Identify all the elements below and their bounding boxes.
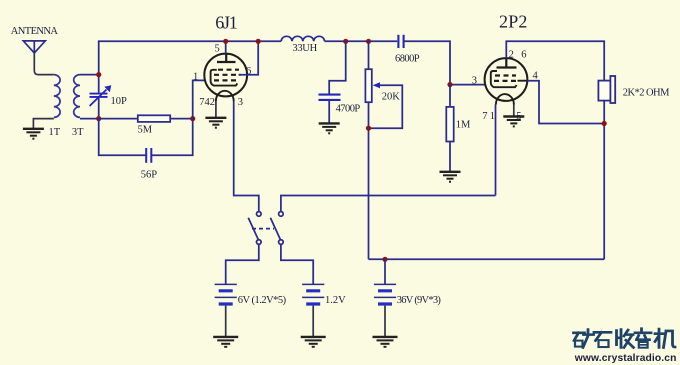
svg-text:1T: 1T: [49, 127, 61, 138]
svg-text:7: 7: [482, 111, 487, 122]
svg-text:3: 3: [472, 76, 477, 87]
ground (battery 6V): [213, 337, 238, 347]
wire 6800P to 2P2 grid: [404, 41, 485, 84]
junction 1M node: [447, 82, 452, 87]
svg-text:4: 4: [533, 70, 539, 81]
wire riser node A to top rail: [99, 41, 282, 74]
transformer secondary winding 3T: [74, 75, 80, 118]
svg-text:1M: 1M: [456, 119, 471, 130]
inductor 33UH: [281, 36, 324, 41]
junction node B: [96, 116, 101, 121]
battery 36V plates: [374, 284, 396, 304]
tube 6J1 heater: [216, 91, 234, 101]
capacitor 6800P plates: [398, 35, 403, 48]
wire 2P2 pin 7 1 down: [495, 105, 497, 196]
svg-text:1: 1: [490, 111, 495, 122]
wire 6J1 pin 6 to top rail: [239, 41, 259, 75]
svg-text:2P2: 2P2: [499, 12, 528, 32]
svg-text:5: 5: [215, 44, 220, 55]
antenna symbol: [23, 41, 45, 53]
svg-text:2: 2: [509, 50, 514, 61]
variable capacitor 10P arrow: [90, 85, 112, 106]
svg-text:5M: 5M: [138, 125, 153, 136]
tube 2P2 grids (dashed): [494, 76, 516, 81]
tube 6J1 grids (dashed): [214, 70, 241, 81]
svg-text:1: 1: [193, 71, 198, 82]
wire switch right to 2P2 pin 7: [281, 196, 496, 212]
tube 2P2 cathode: [491, 71, 517, 87]
svg-text:10P: 10P: [111, 96, 128, 107]
svg-text:4700P: 4700P: [336, 104, 361, 115]
variable capacitor 10P plates: [90, 94, 108, 97]
junction 6J1 pin 6 on rail: [256, 39, 261, 44]
wire 6J1 pin 5 to top rail: [225, 41, 227, 53]
battery 6V plates: [215, 284, 237, 304]
watermark logo (stylized CJK strokes): [574, 329, 676, 348]
capacitor 56P plates: [146, 148, 151, 163]
wire secondary top to node A: [80, 74, 99, 76]
ground (1M): [440, 172, 461, 182]
svg-text:ANTENNA: ANTENNA: [11, 26, 59, 37]
variable capacitor 10P leads: [98, 75, 100, 119]
ground (6J1 cathode): [205, 118, 226, 128]
wire 5M to grid node: [170, 118, 193, 120]
capacitor 56P leads: [99, 119, 193, 156]
svg-text:742: 742: [199, 97, 215, 108]
capacitor 4700P plates: [319, 95, 341, 100]
wire battery 1.2V to ground: [312, 306, 314, 337]
svg-text:20K: 20K: [382, 92, 401, 103]
battery 1.2V plates: [302, 284, 324, 304]
resistor 1M body: [446, 107, 453, 142]
potentiometer 20K wiper arrow: [369, 82, 403, 128]
svg-text:3: 3: [238, 97, 243, 108]
junction 20K tap: [366, 39, 371, 44]
tube 2P2 heater: [496, 94, 514, 104]
wire 2P2 plate to speaker top: [506, 41, 604, 80]
svg-text:6V (1.2V*5): 6V (1.2V*5): [238, 295, 287, 306]
ground (antenna coil): [23, 129, 44, 139]
wire speaker bottom to junction: [603, 101, 605, 260]
potentiometer 20K leads: [368, 41, 370, 259]
svg-text:6J1: 6J1: [215, 13, 237, 33]
svg-text:6800P: 6800P: [395, 54, 420, 65]
junction 6J1 pin 5 on rail: [223, 39, 228, 44]
wire battery 6V to ground: [225, 306, 227, 337]
speaker magnet bar: [610, 76, 615, 103]
svg-text:56P: 56P: [141, 170, 158, 181]
tube 6J1 plate: [217, 54, 236, 62]
speaker body: [598, 81, 610, 101]
transformer primary winding 1T: [54, 75, 60, 118]
svg-text:36V (9V*3): 36V (9V*3): [397, 295, 442, 306]
wire grid node to 6J1 pin 1: [193, 80, 205, 118]
capacitor 4700P leads: [329, 41, 346, 123]
switch S1 blades: [248, 218, 280, 240]
svg-text:www.crystalradio.cn: www.crystalradio.cn: [574, 353, 677, 364]
wire switch left bottom to battery 6V: [226, 244, 259, 284]
resistor 5M body: [138, 115, 170, 122]
wire 36V tap to battery 36V: [384, 259, 386, 284]
wire secondary bottom to node B: [80, 118, 99, 120]
wire 2P2 pin 4 to speaker bottom: [518, 80, 528, 82]
junction 20K bottom: [366, 126, 371, 131]
wire 2P2 pin 5 to ground: [513, 105, 515, 116]
svg-text:6: 6: [521, 50, 526, 61]
ground (2P2 pin 5): [503, 117, 524, 127]
svg-text:2K*2 OHM: 2K*2 OHM: [623, 88, 670, 99]
potentiometer 20K body: [365, 69, 371, 102]
wire 6J1 pin 3 to switch: [234, 101, 259, 212]
wire battery 36V to ground: [384, 306, 386, 337]
junction 36V tap: [382, 257, 387, 262]
junction node A: [96, 72, 101, 77]
tube 6J1 envelope: [204, 54, 247, 97]
ground (4700P): [319, 123, 340, 133]
svg-text:5: 5: [516, 111, 521, 122]
svg-text:1.2V: 1.2V: [325, 295, 346, 306]
wire node B to 5M: [99, 118, 138, 120]
wire antenna to transformer primary: [34, 53, 54, 75]
ground (battery 1.2V): [301, 337, 326, 347]
wire switch right bottom to battery 1.2V: [281, 244, 313, 284]
junction grid node: [190, 116, 195, 121]
tube 6J1 cathode: [211, 70, 238, 86]
wire inductor to 6800P: [325, 40, 398, 42]
wire 6J1 heater pin 742 to ground: [215, 101, 217, 117]
junction speaker bottom: [602, 121, 607, 126]
tube 2P2 plate: [497, 58, 517, 67]
resistor 1M leads: [449, 85, 451, 172]
switch S1 link (dashed): [252, 228, 274, 230]
bottom rail wire: [369, 258, 605, 260]
svg-text:33UH: 33UH: [292, 43, 317, 54]
svg-text:3T: 3T: [72, 127, 84, 138]
ground (battery 36V): [373, 337, 398, 347]
junction 4700P tap: [343, 39, 348, 44]
tube 2P2 envelope: [485, 58, 528, 101]
wire primary bottom to ground: [33, 119, 53, 129]
switch S1 contacts: [257, 212, 284, 245]
